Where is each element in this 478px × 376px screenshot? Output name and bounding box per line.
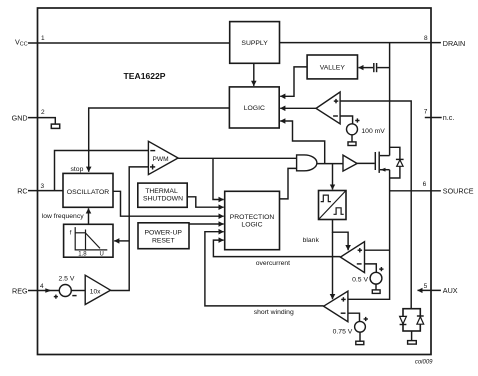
svg-text:U: U [100,252,104,258]
svg-text:8: 8 [424,35,428,42]
svg-text:2.5 V: 2.5 V [59,276,75,283]
svg-text:LOGIC: LOGIC [241,221,262,228]
svg-text:blank: blank [303,237,320,244]
svg-text:SHUTDOWN: SHUTDOWN [143,196,183,203]
svg-text:RC: RC [17,187,27,196]
svg-text:PWM: PWM [153,156,169,163]
svg-text:7: 7 [424,108,428,115]
svg-text:LOGIC: LOGIC [244,105,265,112]
svg-text:2: 2 [41,109,45,116]
svg-text:VALLEY: VALLEY [320,65,346,72]
svg-text:SOURCE: SOURCE [443,186,474,195]
svg-text:OSCILLATOR: OSCILLATOR [67,189,110,196]
svg-text:4: 4 [40,283,44,290]
svg-text:1: 1 [41,35,45,42]
svg-text:overcurrent: overcurrent [256,260,290,267]
svg-text:GND: GND [12,113,28,122]
svg-text:TEA1622P: TEA1622P [124,71,166,81]
svg-text:POWER-UP: POWER-UP [145,230,183,237]
svg-text:stop: stop [71,166,84,173]
svg-text:RESET: RESET [152,238,175,245]
svg-text:DRAIN: DRAIN [443,39,465,48]
svg-text:low frequency: low frequency [42,213,85,220]
svg-text:AUX: AUX [443,286,458,295]
svg-text:0.5 V: 0.5 V [352,277,368,284]
svg-text:PROTECTION: PROTECTION [230,214,275,221]
svg-text:n.c.: n.c. [443,113,455,122]
svg-text:coi009: coi009 [415,360,433,366]
svg-text:5: 5 [424,283,428,290]
svg-text:SUPPLY: SUPPLY [241,40,268,47]
svg-text:THERMAL: THERMAL [145,188,178,195]
svg-text:1.8: 1.8 [78,252,87,258]
svg-text:10x: 10x [90,288,101,295]
svg-text:short winding: short winding [254,309,294,316]
svg-text:VCC: VCC [15,37,28,47]
svg-text:0.75 V: 0.75 V [333,329,353,336]
svg-text:6: 6 [423,181,427,188]
svg-text:100 mV: 100 mV [361,128,385,135]
svg-text:REG: REG [12,286,28,295]
svg-text:3: 3 [41,183,45,190]
